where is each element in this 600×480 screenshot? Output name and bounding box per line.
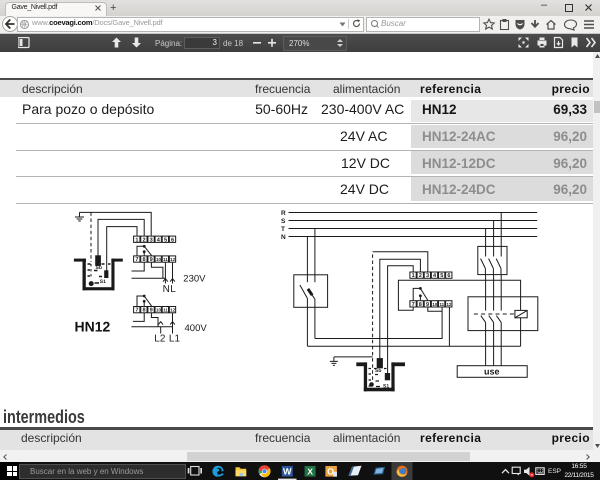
svg-text:L1: L1 (169, 334, 181, 345)
float ball (right tank) (369, 382, 374, 387)
switch pole out left (306, 299, 308, 346)
arrow L (170, 279, 175, 282)
use box (457, 366, 527, 378)
svg-text:Sb: Sb (375, 368, 381, 374)
svg-text:10: 10 (156, 257, 161, 262)
stub from terminal 8 (132, 262, 145, 271)
line R (289, 212, 538, 214)
terminal block X5 (7-12) (410, 301, 452, 308)
wire R to contactor (500, 213, 502, 247)
svg-text:400V: 400V (185, 323, 208, 334)
svg-text:S: S (281, 218, 286, 225)
svg-text:L: L (170, 284, 176, 295)
stub from terminal 9 (151, 262, 163, 278)
svg-text:W: W (283, 466, 292, 476)
ground PE2 (330, 357, 338, 366)
svg-text:10: 10 (156, 308, 161, 313)
svg-text:use: use (484, 367, 500, 377)
svg-text:L2: L2 (154, 334, 166, 345)
wire terminal 12 down (448, 307, 450, 346)
svg-text:7: 7 (412, 302, 415, 308)
wire electrode to terminal 2 (380, 259, 421, 360)
electrode S1 (105, 271, 108, 278)
referencia grey column blocks (411, 100, 593, 122)
svg-text:12: 12 (446, 302, 451, 307)
svg-text:5: 5 (440, 273, 443, 279)
wire electrode Sb to terminal 2 (98, 219, 144, 257)
wire electrode to terminal 1 (388, 266, 414, 374)
nav bar (0, 16, 600, 34)
row 2 (340, 128, 387, 144)
svg-text:N: N (163, 284, 170, 295)
pdf viewer toolbar (0, 34, 600, 53)
svg-text:S1: S1 (383, 384, 389, 390)
wire L (172, 262, 174, 283)
svg-text:2: 2 (142, 237, 145, 243)
svg-text:10: 10 (432, 302, 437, 307)
bottom section (3, 406, 85, 428)
ground PE1 (75, 212, 84, 221)
svg-text:2: 2 (419, 273, 422, 279)
coil KM1 (515, 310, 527, 317)
svg-text:Sb: Sb (96, 265, 102, 271)
wire T to contactor (485, 229, 487, 247)
svg-text:8: 8 (419, 302, 422, 308)
contactor KM1 box (478, 246, 507, 274)
svg-text:X: X (307, 466, 313, 476)
svg-text:S1: S1 (100, 279, 106, 285)
row separators (16, 123, 593, 124)
terminal block X3 (7-12) 400V (134, 307, 176, 314)
browser title bar (0, 0, 600, 16)
switch Q1 blades (300, 285, 315, 299)
wire ground to terminal 3 (80, 212, 152, 235)
changeover contact K (right) (413, 287, 428, 300)
wire 230V supply rail (132, 277, 166, 279)
wire T to switch (314, 229, 316, 283)
windows taskbar (0, 462, 600, 480)
row 1 (22, 101, 154, 117)
row 4 (340, 181, 389, 197)
svg-text:7: 7 (135, 257, 138, 263)
electrode Sb (96, 256, 101, 266)
switch pole out right (314, 299, 316, 339)
svg-text:11: 11 (439, 302, 444, 307)
contactor poles (481, 246, 502, 274)
tank T2 (356, 362, 405, 391)
wire L2 (160, 327, 162, 334)
taskbar icons (180, 462, 600, 480)
wires overload to use (486, 331, 502, 366)
line S (289, 220, 538, 222)
svg-text:11: 11 (163, 308, 168, 313)
terminal block X2 (7-12) 230V (134, 256, 176, 263)
water level dashes (88, 264, 111, 283)
svg-text:1: 1 (135, 237, 138, 243)
arrow L2 (158, 322, 163, 325)
wires contactor to overload (486, 275, 502, 297)
arrow N (163, 279, 168, 282)
wire electrode S1 to terminal 1 (107, 227, 137, 271)
stub from terminal 9 (400V) (151, 313, 158, 327)
electrode S1 (right tank) (385, 374, 389, 380)
wire 400V supply rail (131, 326, 172, 328)
overload poles (481, 297, 501, 331)
svg-text:11: 11 (163, 257, 168, 262)
svg-text:HN12: HN12 (75, 319, 111, 335)
overload relay F1 box (468, 297, 538, 331)
svg-text:R: R (281, 210, 286, 217)
tank T1 (74, 259, 123, 291)
table header (0, 78, 593, 98)
terminal block X1 (1-6) (134, 236, 176, 243)
svg-text:T: T (281, 226, 285, 233)
terminal block X4 (1-6) (410, 272, 452, 279)
window edge (0, 11, 2, 52)
wire L1 (172, 313, 174, 334)
svg-text:7: 7 (135, 308, 138, 314)
svg-text:3: 3 (150, 237, 153, 243)
dashed rod to terminal 3 (372, 252, 374, 386)
electrode Sb (right tank) (377, 359, 382, 368)
stub from terminal 8 (400V) (133, 313, 144, 322)
wire S to contactor (493, 221, 495, 247)
row 3 (341, 155, 390, 171)
wire to terminal 11 (315, 307, 442, 338)
wire N to switch (306, 237, 308, 283)
dashed electrode rod (common) (90, 212, 92, 262)
scrollbars (0, 450, 600, 462)
svg-text:5: 5 (164, 237, 167, 243)
line T (289, 228, 538, 230)
changeover contact K (230V block) (137, 245, 152, 256)
arrow L1 (170, 322, 175, 325)
svg-text:3: 3 (426, 273, 429, 279)
svg-text:9: 9 (426, 302, 429, 308)
switch Q1 box (294, 275, 328, 308)
bridge terminal 9 to 11 (428, 307, 442, 311)
changeover contact K (400V block) (137, 295, 152, 307)
svg-text:12: 12 (170, 308, 175, 313)
svg-text:N: N (281, 234, 286, 241)
line N (289, 236, 538, 238)
svg-text:12: 12 (170, 257, 175, 262)
svg-text:230V: 230V (183, 274, 206, 285)
svg-text:6: 6 (171, 237, 174, 243)
relay box loop from terminal 7 (398, 280, 520, 346)
dashed trip linkage (474, 313, 515, 315)
wire N (164, 262, 166, 283)
svg-text:1: 1 (412, 273, 415, 279)
svg-text:6: 6 (447, 273, 450, 279)
float ball (89, 281, 94, 286)
water dashes (right tank) (369, 369, 387, 387)
phase labels R S T N (281, 210, 286, 241)
wire ground to rod (334, 356, 373, 358)
wire to coil bottom (307, 345, 520, 347)
svg-text:O: O (327, 466, 334, 476)
